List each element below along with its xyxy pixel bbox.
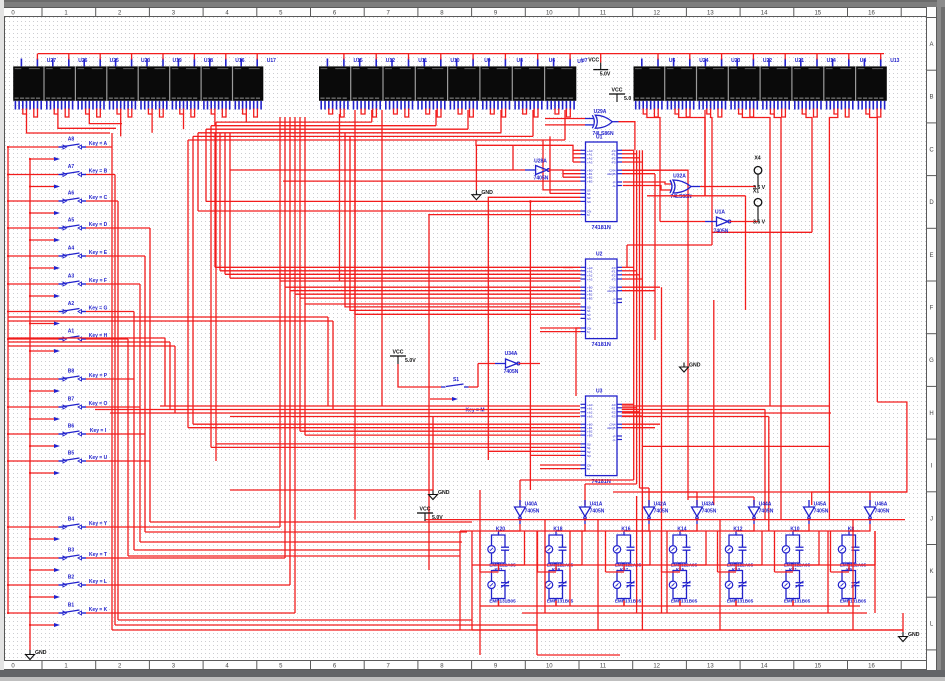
svg-text:A4: A4 <box>68 246 75 252</box>
svg-text:B3: B3 <box>68 548 75 554</box>
svg-text:Key = O: Key = O <box>89 401 108 407</box>
svg-text:U34A: U34A <box>505 351 518 357</box>
svg-text:EMR131B05: EMR131B05 <box>489 599 516 604</box>
svg-text:Key = C: Key = C <box>89 195 108 201</box>
svg-text:U17: U17 <box>267 58 276 64</box>
svg-text:U16: U16 <box>235 58 244 64</box>
svg-text:A8: A8 <box>68 137 75 143</box>
svg-text:U44A: U44A <box>759 502 772 508</box>
svg-text:U4: U4 <box>860 58 867 64</box>
svg-text:U5: U5 <box>669 58 676 64</box>
svg-text:+B3: +B3 <box>587 434 593 438</box>
svg-text:7405N: 7405N <box>590 509 605 515</box>
svg-text:S1: S1 <box>453 377 459 383</box>
svg-text:U42A: U42A <box>654 502 667 508</box>
svg-text:15: 15 <box>814 664 821 670</box>
svg-text:VCC: VCC <box>393 350 404 356</box>
svg-text:7405N: 7405N <box>504 369 519 375</box>
svg-text:7405N: 7405N <box>702 509 717 515</box>
svg-text:Key = Y: Key = Y <box>89 521 108 527</box>
svg-text:-F3: -F3 <box>611 415 616 419</box>
svg-text:Key = A: Key = A <box>89 141 108 147</box>
svg-text:VCC: VCC <box>588 58 599 64</box>
svg-text:AEQB: AEQB <box>607 289 615 293</box>
svg-text:U21: U21 <box>795 58 804 64</box>
svg-text:Key = U: Key = U <box>89 455 108 461</box>
svg-text:11: 11 <box>600 11 607 17</box>
svg-text:X4: X4 <box>754 156 760 162</box>
svg-text:16: 16 <box>868 11 875 17</box>
svg-text:U27: U27 <box>47 58 56 64</box>
svg-text:7405N: 7405N <box>654 509 669 515</box>
svg-text:U12: U12 <box>386 58 395 64</box>
svg-text:U22: U22 <box>763 58 772 64</box>
svg-text:7405N: 7405N <box>759 509 774 515</box>
svg-text:A3: A3 <box>68 274 75 280</box>
svg-text:15: 15 <box>814 11 821 17</box>
svg-text:S3: S3 <box>587 454 591 458</box>
svg-text:U15: U15 <box>354 58 363 64</box>
svg-text:S3: S3 <box>587 200 591 204</box>
svg-text:B4: B4 <box>68 517 75 523</box>
svg-text:Key = B: Key = B <box>89 169 108 175</box>
svg-text:B: B <box>929 95 933 101</box>
svg-text:Key = D: Key = D <box>89 222 108 228</box>
svg-text:C: C <box>929 147 934 153</box>
svg-text:+A3: +A3 <box>587 415 593 419</box>
svg-text:U23: U23 <box>731 58 740 64</box>
svg-text:Key = G: Key = G <box>89 306 108 312</box>
svg-text:A5: A5 <box>68 218 75 224</box>
svg-text:U18: U18 <box>204 58 213 64</box>
svg-text:7405N: 7405N <box>534 176 549 182</box>
svg-text:B1: B1 <box>68 603 75 609</box>
svg-text:Key = L: Key = L <box>89 579 107 585</box>
svg-text:H: H <box>929 411 933 417</box>
svg-text:+B3: +B3 <box>587 297 593 301</box>
svg-text:U24: U24 <box>699 58 708 64</box>
svg-text:U10: U10 <box>450 58 459 64</box>
svg-text:A: A <box>929 42 933 48</box>
svg-text:Key = T: Key = T <box>89 552 107 558</box>
svg-text:GND: GND <box>35 650 47 656</box>
svg-text:14: 14 <box>761 11 768 17</box>
svg-text:3.6 V: 3.6 V <box>753 220 766 226</box>
svg-text:16: 16 <box>868 664 875 670</box>
svg-text:J: J <box>930 516 933 522</box>
svg-text:Key = I: Key = I <box>90 428 107 434</box>
svg-text:U1A: U1A <box>715 210 725 216</box>
svg-text:U20: U20 <box>141 58 150 64</box>
svg-text:-F3: -F3 <box>611 278 616 282</box>
svg-text:12: 12 <box>653 664 660 670</box>
svg-text:5.0V: 5.0V <box>600 72 611 78</box>
svg-text:5.0: 5.0 <box>624 96 631 102</box>
svg-text:U26: U26 <box>78 58 87 64</box>
svg-text:Key = K: Key = K <box>89 607 108 613</box>
svg-text:U19: U19 <box>173 58 182 64</box>
svg-text:U28A: U28A <box>534 159 547 165</box>
svg-text:EMR131B05: EMR131B05 <box>615 599 642 604</box>
svg-text:X1: X1 <box>753 189 759 195</box>
svg-text:GND: GND <box>908 632 920 638</box>
svg-text:F: F <box>930 306 934 312</box>
svg-text:Key = E: Key = E <box>89 250 108 256</box>
svg-text:U14: U14 <box>827 58 836 64</box>
svg-text:12: 12 <box>653 11 660 17</box>
svg-text:U41A: U41A <box>590 502 603 508</box>
svg-text:B2: B2 <box>68 575 75 581</box>
svg-text:B7: B7 <box>68 397 75 403</box>
svg-text:U29A: U29A <box>594 109 607 115</box>
svg-text:A2: A2 <box>68 301 75 307</box>
svg-text:7405N: 7405N <box>525 509 540 515</box>
svg-text:EMR131B05: EMR131B05 <box>784 599 811 604</box>
svg-text:U46A: U46A <box>875 502 888 508</box>
svg-text:-F3: -F3 <box>611 161 616 165</box>
svg-text:13: 13 <box>707 664 714 670</box>
svg-text:EMR131B05: EMR131B05 <box>671 599 698 604</box>
svg-text:Key = P: Key = P <box>89 373 108 379</box>
svg-text:U45A: U45A <box>814 502 827 508</box>
svg-text:74LS86N: 74LS86N <box>670 194 692 200</box>
svg-text:U2: U2 <box>596 252 603 258</box>
svg-text:14: 14 <box>761 664 768 670</box>
svg-text:U13: U13 <box>890 58 899 64</box>
svg-text:+B3: +B3 <box>587 180 593 184</box>
svg-text:GND: GND <box>689 363 701 369</box>
svg-text:7405N: 7405N <box>714 229 729 235</box>
svg-text:AEQB: AEQB <box>607 172 615 176</box>
svg-text:A7: A7 <box>68 164 75 170</box>
svg-text:+A3: +A3 <box>587 161 593 165</box>
svg-text:+A3: +A3 <box>587 278 593 282</box>
svg-text:U8: U8 <box>516 58 523 64</box>
svg-text:U9: U9 <box>484 58 491 64</box>
svg-text:13: 13 <box>707 11 714 17</box>
svg-text:EMR131B05: EMR131B05 <box>727 599 754 604</box>
svg-text:GND: GND <box>481 190 493 196</box>
svg-text:VCC: VCC <box>612 88 623 94</box>
svg-text:11: 11 <box>600 664 607 670</box>
svg-text:U40A: U40A <box>525 502 538 508</box>
svg-text:G: G <box>929 358 934 364</box>
svg-text:U7: U7 <box>577 59 584 65</box>
svg-text:GND: GND <box>438 490 450 496</box>
svg-text:VCC: VCC <box>420 507 431 513</box>
svg-text:U11: U11 <box>418 58 427 64</box>
svg-text:K: K <box>929 569 933 575</box>
svg-text:B8: B8 <box>68 369 75 375</box>
svg-text:S3: S3 <box>587 317 591 321</box>
svg-text:Key = F: Key = F <box>89 278 107 284</box>
svg-text:AEQB: AEQB <box>607 426 615 430</box>
svg-text:D: D <box>929 200 934 206</box>
svg-text:B6: B6 <box>68 424 75 430</box>
svg-text:74181N: 74181N <box>592 342 611 348</box>
svg-text:5.0V: 5.0V <box>405 358 416 364</box>
svg-text:A1: A1 <box>68 329 75 335</box>
svg-text:A6: A6 <box>68 191 75 197</box>
svg-text:74LS86N: 74LS86N <box>592 131 614 137</box>
svg-text:B5: B5 <box>68 451 75 457</box>
svg-text:74181N: 74181N <box>592 225 611 231</box>
svg-text:U25: U25 <box>110 58 119 64</box>
svg-text:7405N: 7405N <box>875 509 890 515</box>
svg-text:U32A: U32A <box>673 174 686 180</box>
svg-text:E: E <box>929 253 933 259</box>
svg-text:10: 10 <box>546 11 553 17</box>
svg-text:U6: U6 <box>549 58 556 64</box>
svg-text:U43A: U43A <box>702 502 715 508</box>
svg-text:U3: U3 <box>596 389 603 395</box>
svg-text:7405N: 7405N <box>814 509 829 515</box>
svg-text:10: 10 <box>546 664 553 670</box>
